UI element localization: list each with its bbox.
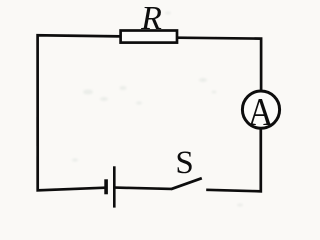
ammeter U1 circle bbox=[242, 91, 279, 128]
resistor R bbox=[121, 31, 177, 43]
wire: top-right + right-upper run bbox=[177, 38, 261, 91]
svg-text:S: S bbox=[175, 145, 193, 181]
svg-text:A: A bbox=[248, 90, 274, 133]
battery short plate (-) bbox=[104, 179, 108, 194]
battery long plate (+) bbox=[113, 166, 116, 207]
wire: battery to switch segment bbox=[115, 188, 171, 189]
svg-text:R: R bbox=[140, 0, 162, 37]
wire: right-lower + bottom-right run bbox=[206, 129, 261, 192]
switch S blade bbox=[171, 178, 202, 189]
scan speckle noise bbox=[72, 12, 243, 207]
wire: top-left + left + bottom-left run bbox=[38, 35, 121, 190]
